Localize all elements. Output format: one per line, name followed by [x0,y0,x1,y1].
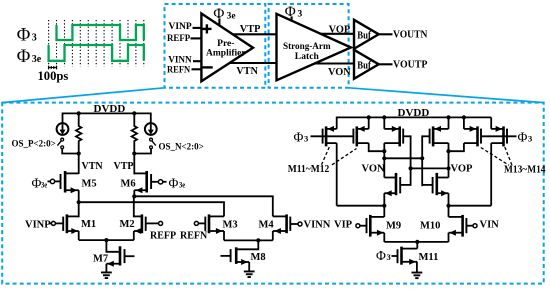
ground (M11 source) [412,272,423,280]
wire latch clock stub [291,16,293,21]
wire VTN [230,62,277,64]
buffer U3 [354,20,379,49]
dashed leader to M11 [322,147,330,165]
wire clock gate line left [311,135,354,137]
node M10 drain junction [446,204,450,208]
wire DVDD rail (pre-amp) [63,112,151,114]
transistor M3 [199,214,225,240]
svg-text:M13~M14: M13~M14 [504,165,546,176]
svg-text:REFP: REFP [167,33,190,44]
label PHI3 (waveform) [17,25,37,45]
node VOP at cross-couple tap [446,166,450,170]
svg-text:Φ: Φ [294,130,304,145]
svg-text:3: 3 [528,134,532,144]
svg-text:M9: M9 [386,221,401,232]
svg-text:M11~M12: M11~M12 [288,164,330,175]
label PHI3e (M5 gate) [32,176,48,191]
svg-text:100ps: 100ps [38,69,69,83]
terminal VIN [473,224,477,228]
ground (M8 source) [244,271,255,279]
switch OS_P [57,138,63,149]
transistor M11 reset (left outer) [323,117,337,206]
svg-text:Amplifier: Amplifier [206,48,246,59]
node M9 drain junction [382,204,386,208]
label PHI3e (waveform) [17,47,42,67]
terminal VINP [51,221,55,225]
wire VTP [233,33,277,35]
svg-text:VTP: VTP [240,24,261,35]
svg-text:VTP: VTP [114,161,134,172]
svg-text:VOP: VOP [329,24,351,35]
svg-text:VTN: VTN [236,66,258,77]
buffer U4 [354,50,379,79]
wire M14 gate vertical [421,135,423,186]
label Pre-Amplifier [206,38,246,59]
svg-text:VINN: VINN [304,220,331,231]
label PHI3 (right reset gates) [518,130,533,145]
svg-text:Φ: Φ [285,4,296,20]
wire pre-amp clock stub [218,18,220,25]
svg-text:VIN: VIN [480,220,500,231]
node M13 gate to VOP tie [409,166,413,170]
wire VTP vertical [133,154,135,175]
wire DVDD rail (latch) [337,116,492,118]
wire REFN stub [192,68,202,70]
resistor R1 [76,113,81,154]
transistor M11 tail [392,242,418,272]
node M5 drain bus junction [77,200,81,204]
svg-text:Buf: Buf [357,59,371,71]
svg-text:M6: M6 [121,179,136,190]
transistor M14 cross-coupled PMOS right [422,117,448,178]
node M3/M4 tail junction [256,238,260,242]
wire M1/M2 tail [79,239,134,241]
wire VOUTN [379,33,393,35]
transistor M5 [48,171,79,202]
wire M16 drain to M10 drain [449,205,492,207]
dashed leader to M12 [332,149,357,165]
wire VOUTP [379,63,393,65]
transistor M2 [134,196,159,240]
wire rail to right current source [150,113,152,124]
svg-text:REFP: REFP [150,230,176,241]
transistor M7 [106,240,134,272]
svg-text:OS_N<2:0>: OS_N<2:0> [159,142,204,152]
transistor M15 reset (right inner) [449,117,482,151]
current source I1 [57,123,69,135]
transistor M13 cross-coupled PMOS left [384,117,410,178]
current source I2 [145,123,157,135]
node M14 source to rail [446,115,450,119]
node M14 gate to VON tie [420,156,424,160]
terminal VIP [356,224,360,228]
dashed box around strong-arm latch [269,4,349,88]
node M6 drain bus junction [132,194,136,198]
plus sign input [202,24,211,33]
wire VOP cross link [411,167,449,169]
svg-text:M4: M4 [259,220,275,231]
wire bus A (M6/M2/M4) [134,196,272,216]
transistor M8 [221,240,259,271]
transistor M1 [49,201,79,240]
wire rail to left current source [62,113,64,124]
comparator U2 strong-arm latch triangle [277,14,351,81]
transistor M12 reset (left inner) [353,117,384,151]
svg-text:VOUTN: VOUTN [393,28,427,40]
svg-text:VOP: VOP [451,164,474,175]
node VON at M12 drain tie [382,149,386,153]
svg-text:REFN: REFN [167,64,190,75]
clock waveform PHI3 [57,25,144,40]
svg-text:3e: 3e [179,180,185,190]
svg-text:Φ: Φ [17,25,31,45]
wire VON [315,62,355,64]
wire bus B (M5/M1/M3) [79,202,224,216]
svg-text:VOUTP: VOUTP [393,58,428,70]
dashed box around transistor-level schematic [2,103,544,284]
transistor M10 [449,205,474,242]
svg-text:M3: M3 [223,220,238,231]
label PHI3 (M11 tail gate) [376,248,391,263]
terminal VINN [298,222,302,226]
node VON at cross-couple tap [382,156,386,160]
svg-text:Φ: Φ [376,248,386,263]
svg-text:Φ: Φ [169,176,179,191]
terminal REFN [194,221,198,225]
svg-text:3e: 3e [41,180,47,190]
zoom funnel line right [349,88,544,103]
zoom funnel line left [2,88,164,103]
label PHI3e (pre-amp clock) [213,6,235,22]
wire VINP stub [193,27,202,29]
svg-text:OS_P<2:0>: OS_P<2:0> [12,138,56,148]
transistor M17 cross-coupled NMOS left [384,173,410,206]
wire M3/M4 tail [224,239,273,241]
svg-text:VINP: VINP [25,219,51,230]
svg-text:M11: M11 [419,252,439,263]
svg-text:3: 3 [387,252,391,262]
transistor M4 [273,214,298,240]
svg-text:VTN: VTN [82,161,104,172]
svg-text:VON: VON [328,67,351,78]
wire clock gate line right [481,135,517,137]
svg-text:Buf: Buf [357,29,371,41]
wire M13 gate vertical [410,135,412,185]
label Strong-Arm Latch [283,41,331,62]
timing grid dotted lines [49,20,144,67]
transistor M18 cross-coupled NMOS right [422,173,448,206]
wire VON to M14 gate [384,157,422,159]
100ps interval marker [49,66,57,70]
wire switch to VTN node [62,149,78,154]
svg-text:M5: M5 [82,179,97,190]
svg-text:M8: M8 [251,252,266,263]
node M12 drain to rail [367,115,371,119]
node M13 source to rail [382,115,386,119]
minus sign input [202,66,212,68]
svg-text:3e: 3e [227,11,236,21]
amplifier U1 pre-amplifier triangle [201,14,253,82]
svg-text:M1: M1 [81,219,96,230]
node VTP junction [132,151,136,155]
dashed box around pre-amplifier [165,4,266,88]
wire M9/M10 tail [384,241,448,243]
svg-text:3: 3 [298,10,303,20]
wire VTN vertical [78,154,80,175]
svg-text:3e: 3e [32,54,42,65]
svg-text:Φ: Φ [32,176,42,191]
wire REFP stub [191,37,202,39]
svg-text:VIP: VIP [334,220,353,231]
svg-text:Φ: Φ [17,47,31,67]
label PHI3 (latch clock) [285,4,303,20]
dashed leader to M16 [505,147,512,165]
svg-text:3: 3 [304,134,308,144]
wire VOP [321,33,354,35]
resistor R2 [132,113,137,154]
node M9/M10 tail junction [415,240,419,244]
wire VINN stub [193,60,201,62]
label PHI3e (M6 gate) [169,176,186,191]
svg-text:VINP: VINP [169,21,192,32]
svg-text:3: 3 [32,32,37,43]
svg-text:M10: M10 [420,221,440,232]
svg-text:VON: VON [362,164,386,175]
dashed leader to M15 [481,148,509,166]
svg-text:M7: M7 [93,253,108,264]
node M1/M2 tail junction [104,238,108,242]
svg-text:Latch: Latch [295,51,320,62]
node VOP at M15 drain tie [446,149,450,153]
switch OS_N [150,138,156,149]
wire M11 drain to M9 drain [337,205,385,207]
transistor M16 reset (right outer) [491,117,507,205]
label PHI3 (left reset gates) [294,130,309,145]
svg-text:Φ: Φ [518,130,528,145]
ground (M7 source) [101,272,112,280]
wire switch to VTP node [134,149,151,154]
svg-text:M2: M2 [120,219,135,230]
node M15 drain to rail [462,115,466,119]
clock waveform PHI3e [49,45,144,61]
transistor M9 [360,205,384,242]
terminal REFP [159,221,163,225]
transistor M6 [134,171,166,196]
node VTN junction [77,151,81,155]
svg-text:REFN: REFN [180,230,208,241]
